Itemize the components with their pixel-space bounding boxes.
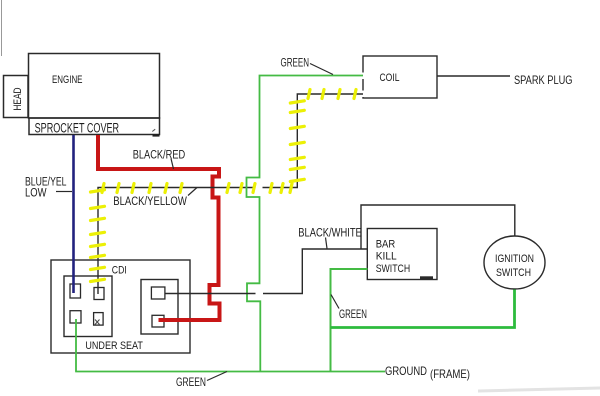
scan edge artifact line [1,0,3,56]
svg-text:GREEN: GREEN [176,377,206,389]
wire green ignition switch [331,290,515,328]
spark plug wire [437,75,510,77]
svg-text:KILL: KILL [376,251,397,263]
black/white pointer [326,238,328,249]
head box [4,76,29,118]
svg-text:COIL: COIL [380,72,400,84]
svg-text:UNDER SEAT: UNDER SEAT [85,340,143,352]
CDI outer box (under seat) [51,260,190,353]
svg-text:ENGINE: ENGINE [52,74,83,86]
wire blue/yellow [72,135,75,293]
wire black/yellow [98,94,363,294]
svg-text:HEAD: HEAD [12,87,24,110]
CDI left connector box [64,276,112,337]
ground green wire [75,371,385,373]
green bottom pointer [207,372,227,381]
svg-text:SWITCH: SWITCH [496,267,531,279]
svg-text:SPARK PLUG: SPARK PLUG [514,73,573,87]
svg-text:BAR: BAR [376,238,396,250]
pin square 6 [152,315,164,327]
pin square 1 [70,284,81,298]
svg-text:BLACK/RED: BLACK/RED [133,149,186,161]
wire green bar kill switch to ground [331,269,368,372]
X mark in pin 4 [95,320,100,325]
bar kill switch box [367,229,437,280]
svg-text:CDI: CDI [112,264,127,276]
sprocket corner blob [153,134,160,137]
wire black/red [98,135,220,320]
wire green coil to connectors [247,76,364,372]
yellow ticks on vertical black/yellow (coil leg) [290,101,304,182]
yellow stripe ticks on horizontal black/yellow [102,184,292,193]
engine box [29,54,160,119]
black/red pointer [171,159,174,170]
pin square 3 [70,311,81,323]
blue/yel pointer [56,191,72,193]
black/yellow pointer [188,188,197,196]
green mid pointer [331,295,339,309]
yellow ticks on top black/yellow horizontal [308,90,356,99]
svg-text:(FRAME): (FRAME) [430,367,470,381]
CDI right connector box [141,280,178,335]
wire black/white [165,205,515,294]
svg-text:GREEN: GREEN [281,57,310,69]
ignition switch [484,236,545,289]
svg-text:GREEN: GREEN [339,309,367,321]
pin square 2 [94,288,104,300]
svg-text:LOW: LOW [25,187,47,199]
svg-text:BLACK/WHITE: BLACK/WHITE [298,228,362,240]
faint smudge bottom right [478,388,600,391]
wire green CDI down [75,319,77,372]
svg-text:BLACK/YELLOW: BLACK/YELLOW [113,196,187,208]
svg-text:SWITCH: SWITCH [376,263,411,275]
green top pointer [310,64,333,75]
yellow ticks on vertical black/yellow (CDI leg) [91,190,105,282]
sprocket cover box [29,118,160,135]
pin square 4 [94,313,104,326]
svg-text:SPROCKET COVER: SPROCKET COVER [35,120,120,135]
pin square 5 [151,287,165,299]
svg-text:GROUND: GROUND [385,364,427,378]
svg-text:IGNITION: IGNITION [495,253,534,265]
coil box [363,56,437,98]
